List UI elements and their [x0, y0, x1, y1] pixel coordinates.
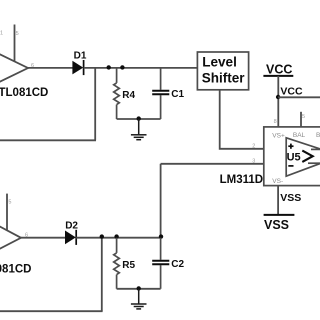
wire top feedback vertical segment — [94, 68, 96, 140]
wire pin 3 net vertical segment down to bottom net — [160, 164, 162, 238]
wire R4 bottom to C1 bottom — [117, 118, 161, 120]
comparator chevron symbol — [302, 151, 312, 162]
svg-text:VS-: VS- — [272, 178, 283, 185]
wire pin 5 stub of top op-amp — [14, 25, 16, 62]
svg-text:5: 5 — [302, 114, 305, 120]
ground (bottom) — [131, 289, 147, 309]
svg-text:D1: D1 — [74, 51, 87, 62]
svg-text:Level: Level — [202, 54, 237, 69]
diode D2 — [65, 230, 76, 245]
ground (top) — [131, 119, 147, 140]
op-amp U4 TL081CD (bottom-left, clipped at edge) — [0, 217, 21, 259]
svg-text:VCC: VCC — [266, 63, 292, 77]
plus input mark — [288, 144, 293, 149]
node junction dot A on top net — [107, 65, 111, 69]
comparator U5 body box — [264, 127, 320, 186]
svg-text:U5: U5 — [287, 152, 301, 164]
wire VCC symbol down to U5 pin 8 — [277, 76, 279, 127]
capacitor C1 — [152, 68, 169, 119]
node junction dot D on bottom net — [100, 234, 104, 238]
svg-text:BAL: BAL — [316, 132, 320, 139]
svg-text:VS+: VS+ — [272, 132, 285, 139]
node junction dot B on top net — [120, 65, 124, 69]
wire top feedback horizontal segment — [0, 139, 96, 141]
svg-text:BAL: BAL — [293, 132, 306, 139]
wire op-amp output to D1 anode — [28, 67, 73, 69]
wire D2 cathode to bottom net junction — [76, 237, 161, 239]
svg-text:TL081CD: TL081CD — [0, 87, 48, 99]
svg-text:D2: D2 — [65, 221, 78, 232]
node junction dot C on ground net (top) — [137, 116, 141, 120]
svg-text:1: 1 — [0, 31, 3, 37]
wire op-amp output to D2 anode — [21, 237, 65, 239]
wire bottom feedback vertical segment — [101, 238, 103, 312]
resistor R4 — [114, 68, 120, 119]
svg-text:R5: R5 — [122, 260, 135, 271]
power VSS symbol — [264, 215, 295, 232]
power VCC symbol — [263, 63, 293, 77]
wire bottom feedback horizontal segment — [0, 310, 103, 312]
node junction dot F on bottom net — [159, 234, 163, 238]
op-amp U3 TL081CD (top-left, clipped at edge) — [0, 49, 28, 88]
block Level Shifter — [197, 52, 248, 90]
svg-text:VCC: VCC — [280, 85, 303, 97]
svg-text:C2: C2 — [171, 259, 184, 270]
wire pin 5 stub of bottom op-amp — [6, 194, 8, 231]
node junction dot G on ground net (bottom) — [137, 286, 141, 290]
svg-text:C1: C1 — [171, 89, 184, 100]
wire Level Shifter output to U5 pin 2 — [220, 90, 264, 149]
wire U5 pin 3 horizontal segment — [161, 163, 264, 165]
svg-text:VSS: VSS — [280, 192, 301, 204]
wire U5 pin 5 stub — [300, 112, 302, 127]
svg-text:3: 3 — [252, 159, 255, 165]
svg-text:Shifter: Shifter — [202, 70, 246, 85]
svg-text:5: 5 — [16, 31, 19, 37]
diode D1 — [72, 60, 83, 75]
svg-text:VSS: VSS — [264, 218, 289, 232]
wire R5 bottom to C2 bottom — [117, 288, 161, 290]
svg-text:LM311D: LM311D — [220, 174, 263, 186]
capacitor C2 — [152, 238, 169, 289]
svg-text:R4: R4 — [122, 90, 135, 101]
wire VCC rail to the right edge — [278, 96, 320, 98]
comparator U5 triangle — [286, 138, 320, 176]
svg-text:2: 2 — [252, 144, 255, 150]
svg-text:8: 8 — [274, 119, 277, 125]
svg-text:TL081CD: TL081CD — [0, 263, 31, 275]
wire D1 cathode to Level Shifter input — [84, 67, 198, 69]
node junction dot E on bottom net — [114, 234, 118, 238]
minus input mark — [288, 165, 293, 167]
svg-text:5: 5 — [8, 200, 11, 206]
resistor R5 — [114, 238, 120, 289]
wire U5 pin 4 down to VSS — [277, 186, 279, 215]
node junction dot on VCC net — [276, 95, 280, 99]
